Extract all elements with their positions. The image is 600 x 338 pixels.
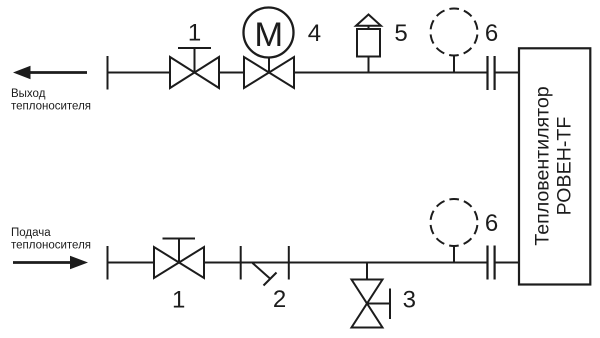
pipe end tick (top) <box>107 56 109 90</box>
flow arrow in (bottom left) <box>13 256 88 269</box>
sensor circle (top, dashed) <box>431 9 478 73</box>
svg-text:6: 6 <box>485 210 498 237</box>
svg-text:теплоносителя: теплоносителя <box>11 100 91 112</box>
sensor circle (bottom, dashed) <box>431 199 478 263</box>
svg-text:1: 1 <box>188 20 201 47</box>
valve V1 (bottom shut-off valve) <box>154 239 204 279</box>
drain valve V3 <box>352 263 391 328</box>
wire <box>108 262 155 264</box>
pipe end tick (bottom) <box>107 246 109 280</box>
svg-text:2: 2 <box>273 286 286 313</box>
wire <box>289 262 488 264</box>
svg-text:5: 5 <box>394 20 407 47</box>
valve V1 (top shut-off valve) <box>170 48 219 88</box>
svg-text:M: M <box>254 16 283 54</box>
wire <box>204 262 289 264</box>
svg-text:Подача: Подача <box>11 227 51 239</box>
wire <box>495 72 519 74</box>
svg-text:теплоносителя: теплоносителя <box>11 239 91 251</box>
svg-text:Выход: Выход <box>11 88 46 100</box>
wire <box>294 72 488 74</box>
flange pair (top) <box>488 56 495 90</box>
wire <box>108 72 171 74</box>
wire <box>219 72 244 74</box>
svg-text:3: 3 <box>403 286 416 313</box>
svg-text:4: 4 <box>308 20 321 47</box>
wire <box>495 262 519 264</box>
motorized valve U4 <box>244 8 295 89</box>
air vent A5 <box>356 15 381 73</box>
flow arrow out (top left) <box>13 66 87 79</box>
flange pair (bottom) <box>488 246 495 280</box>
svg-text:1: 1 <box>172 286 185 313</box>
svg-text:Тепловентилятор: Тепловентилятор <box>531 86 553 245</box>
svg-text:6: 6 <box>485 20 498 47</box>
unit label text <box>531 86 575 245</box>
fan heater unit box <box>519 48 590 284</box>
svg-text:РОВЕН-TF: РОВЕН-TF <box>553 117 575 216</box>
strainer F2 <box>241 246 289 286</box>
